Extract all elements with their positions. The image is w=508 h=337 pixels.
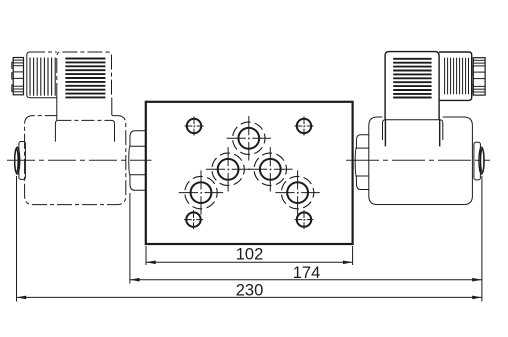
left coil nut <box>129 131 146 191</box>
left manual override cap <box>19 142 26 180</box>
right cable gland knurled cap <box>472 58 485 95</box>
left connector block B outline <box>27 52 57 98</box>
port hole top-center <box>227 116 271 160</box>
svg-text:230: 230 <box>236 281 264 299</box>
centerline main horizontal axis right segment <box>346 159 490 161</box>
left coil tube (phantom) <box>25 116 126 205</box>
dimension extension line right cap (174/230) <box>481 176 483 302</box>
dimension extension line left nut (174) <box>129 193 131 284</box>
right coil nut <box>355 135 369 190</box>
right override button lens <box>479 147 484 174</box>
left connector block A horizontal ribs <box>65 59 105 98</box>
port hole mid-left <box>206 147 250 191</box>
right connector block B vertical ribs <box>445 58 469 95</box>
left connector stem <box>56 98 58 120</box>
right connector block B outline <box>439 52 472 100</box>
svg-text:174: 174 <box>293 264 321 282</box>
port hole low-left <box>179 170 223 214</box>
left connector boss on coil <box>58 119 111 121</box>
mounting hole bottom-right <box>295 210 314 229</box>
right connector stem inner lines <box>384 120 386 147</box>
dimension extension line body left (102) <box>145 246 147 265</box>
dimension line 230 <box>17 296 482 300</box>
left connector block A outline (phantom) <box>57 52 112 98</box>
port hole low-right <box>275 170 319 214</box>
left cable gland knurled cap <box>12 58 24 95</box>
mounting hole bottom-left <box>184 210 203 229</box>
right connector boss on coil <box>383 120 443 140</box>
mounting hole top-left <box>185 117 204 136</box>
right connector block A horizontal ribs <box>393 59 431 98</box>
right connector block A outline <box>385 52 439 120</box>
valve body <box>146 102 353 244</box>
port hole mid-right <box>248 147 292 191</box>
dimension extension line left cap (230) <box>16 176 18 302</box>
svg-text:102: 102 <box>236 246 264 264</box>
right coil tube <box>369 117 473 205</box>
left override button lens <box>15 147 20 174</box>
mounting hole top-right <box>295 117 314 136</box>
dimension line 102 <box>146 261 353 265</box>
dimension line 174 <box>130 278 482 282</box>
right manual override cap <box>474 142 481 180</box>
dimension extension line body right (102) <box>352 246 354 265</box>
centerline main horizontal axis left segment <box>7 159 152 161</box>
left connector block B vertical ribs <box>30 58 55 96</box>
